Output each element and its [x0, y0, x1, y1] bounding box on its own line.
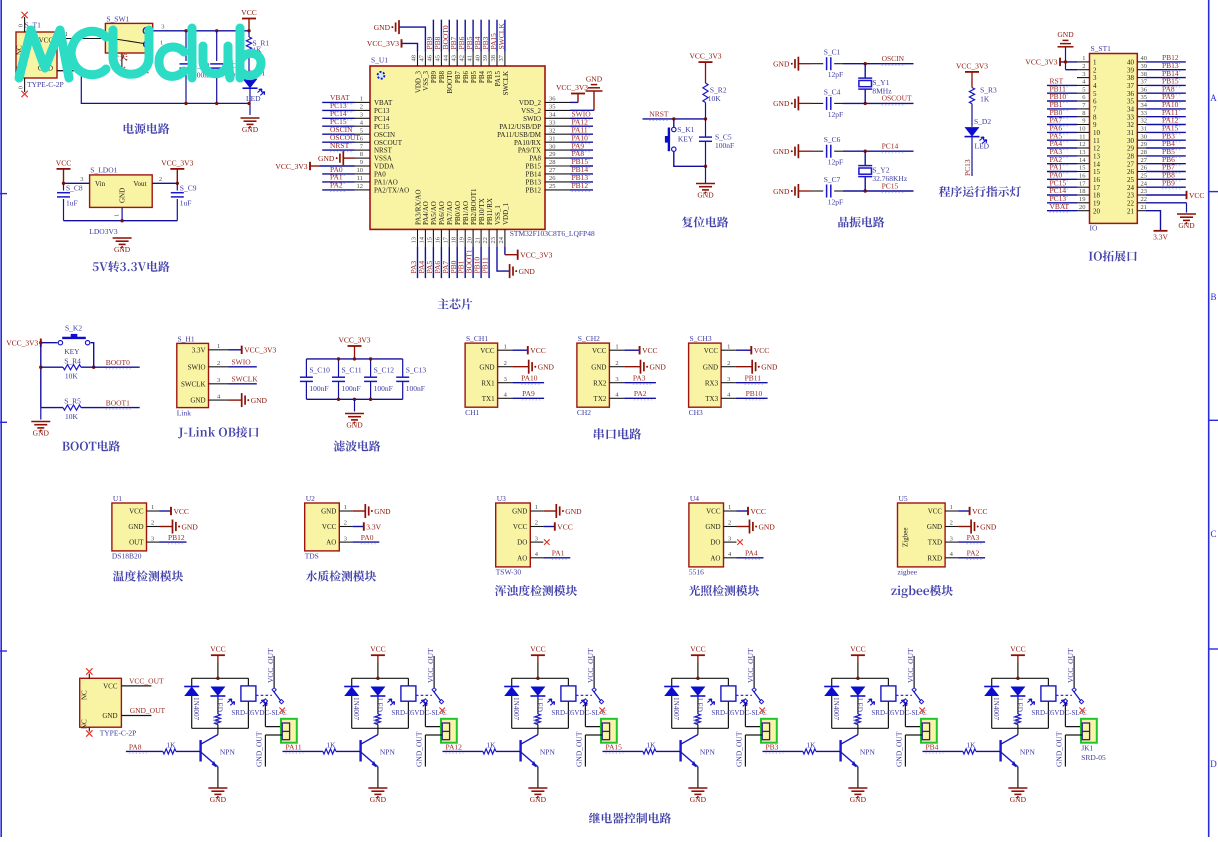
svg-text:3: 3	[1093, 74, 1097, 82]
svg-text:VSS_1: VSS_1	[494, 205, 502, 225]
svg-text:NPN: NPN	[700, 748, 716, 757]
svg-text:PB6: PB6	[462, 71, 470, 84]
svg-text:PA1/AO: PA1/AO	[374, 179, 398, 187]
svg-text:100nF: 100nF	[309, 384, 328, 393]
svg-text:10: 10	[1079, 126, 1086, 133]
svg-text:36: 36	[1141, 86, 1148, 93]
svg-text:GND_OUT: GND_OUT	[895, 731, 904, 767]
svg-text:TX1: TX1	[482, 395, 495, 403]
svg-text:3: 3	[535, 535, 538, 542]
svg-text:31: 31	[1127, 129, 1135, 137]
svg-text:32: 32	[1141, 118, 1148, 125]
svg-text:25: 25	[1141, 173, 1148, 180]
svg-text:VCC_3V3: VCC_3V3	[520, 251, 552, 260]
svg-text:LED: LED	[1015, 698, 1023, 712]
svg-text:PA12: PA12	[446, 743, 463, 752]
svg-text:PA11: PA11	[286, 743, 302, 752]
svg-text:PA2: PA2	[330, 181, 343, 190]
svg-text:37: 37	[498, 54, 505, 61]
svg-text:1: 1	[504, 343, 507, 350]
svg-text:1K: 1K	[692, 716, 700, 726]
svg-text:PB11/RX: PB11/RX	[486, 198, 494, 225]
svg-text:35: 35	[549, 104, 556, 111]
svg-text:48: 48	[411, 55, 418, 62]
svg-text:S_C11: S_C11	[342, 366, 362, 375]
svg-text:VCC: VCC	[322, 523, 337, 531]
svg-text:10: 10	[1093, 129, 1101, 137]
svg-text:2: 2	[727, 360, 730, 367]
svg-text:SWIO: SWIO	[188, 363, 206, 371]
svg-text:23: 23	[1141, 188, 1148, 195]
svg-text:36: 36	[1127, 90, 1135, 98]
svg-text:34: 34	[549, 112, 556, 119]
svg-text:VCC: VCC	[1189, 191, 1204, 200]
svg-text:13: 13	[1093, 153, 1101, 161]
svg-text:32: 32	[1127, 121, 1135, 129]
svg-text:45: 45	[435, 55, 442, 62]
svg-text:VCC: VCC	[530, 645, 545, 654]
svg-text:GND: GND	[927, 523, 942, 531]
svg-text:PB3: PB3	[486, 71, 494, 84]
svg-text:zigbee: zigbee	[898, 567, 918, 576]
svg-text:1K: 1K	[326, 740, 336, 749]
svg-text:PA12/USB/DP: PA12/USB/DP	[499, 123, 541, 131]
svg-text:12: 12	[357, 183, 364, 190]
svg-text:GND: GND	[374, 23, 391, 32]
svg-text:KEY: KEY	[678, 134, 694, 143]
svg-text:S_LDO1: S_LDO1	[90, 166, 117, 175]
svg-text:S_R4: S_R4	[64, 356, 81, 365]
svg-text:VCC: VCC	[174, 507, 189, 516]
svg-text:1K: 1K	[806, 740, 816, 749]
svg-text:GND_OUT: GND_OUT	[255, 731, 264, 767]
svg-text:26: 26	[549, 175, 556, 182]
svg-text:37: 37	[1127, 82, 1135, 90]
svg-text:VCC: VCC	[480, 347, 495, 355]
svg-text:20: 20	[1093, 207, 1101, 215]
svg-text:19: 19	[1093, 199, 1101, 207]
svg-text:21: 21	[1141, 204, 1148, 211]
svg-text:U4: U4	[690, 494, 699, 503]
svg-text:17: 17	[1093, 184, 1101, 192]
svg-text:SRD-05VDC-SL-C: SRD-05VDC-SL-C	[711, 709, 767, 717]
svg-text:100nF: 100nF	[715, 141, 734, 150]
svg-text:5: 5	[360, 127, 363, 134]
svg-text:JK1: JK1	[1081, 744, 1093, 753]
svg-text:1K: 1K	[166, 740, 176, 749]
svg-text:35: 35	[1127, 98, 1135, 106]
svg-text:GND: GND	[1057, 30, 1074, 39]
svg-text:PB13: PB13	[525, 179, 541, 187]
svg-text:30: 30	[1127, 137, 1135, 145]
svg-text:VSS_2: VSS_2	[521, 107, 541, 115]
svg-text:VCC: VCC	[103, 683, 118, 691]
svg-text:Link: Link	[177, 409, 191, 418]
svg-text:1N4007: 1N4007	[352, 697, 360, 721]
svg-text:KEY: KEY	[64, 347, 80, 356]
svg-text:GND: GND	[761, 363, 778, 372]
svg-text:27: 27	[1141, 157, 1148, 164]
svg-text:22: 22	[1127, 199, 1135, 207]
svg-text:9: 9	[360, 159, 363, 166]
svg-text:12pF: 12pF	[828, 70, 843, 79]
svg-text:TYPE-C-2P: TYPE-C-2P	[27, 80, 64, 89]
svg-text:46: 46	[427, 54, 434, 61]
svg-text:27: 27	[549, 167, 556, 174]
svg-text:30: 30	[1141, 133, 1148, 140]
svg-text:RXD: RXD	[927, 554, 942, 562]
svg-text:VCC: VCC	[210, 645, 225, 654]
svg-text:GND: GND	[190, 397, 205, 405]
svg-text:16: 16	[1079, 173, 1086, 180]
svg-text:3.3V: 3.3V	[1153, 233, 1168, 242]
svg-text:37: 37	[1141, 79, 1148, 86]
svg-text:Vout: Vout	[133, 180, 146, 188]
svg-text:PA2: PA2	[967, 549, 980, 558]
svg-text:DS18B20: DS18B20	[112, 551, 142, 560]
svg-text:GND: GND	[980, 522, 997, 531]
svg-text:GND: GND	[128, 523, 143, 531]
svg-text:GND: GND	[773, 147, 790, 156]
svg-text:SRD-05VDC-SL-C: SRD-05VDC-SL-C	[391, 709, 447, 717]
svg-text:GND: GND	[850, 795, 867, 804]
svg-text:VDDA: VDDA	[374, 163, 394, 171]
svg-text:26: 26	[1141, 165, 1148, 172]
svg-text:27: 27	[1127, 160, 1135, 168]
svg-text:PB2/BOOT1: PB2/BOOT1	[470, 188, 478, 225]
svg-text:PC13: PC13	[963, 159, 972, 176]
svg-text:40: 40	[1127, 59, 1135, 67]
svg-text:SWIO: SWIO	[232, 358, 252, 367]
svg-text:S_C13: S_C13	[406, 366, 427, 375]
svg-text:NRST: NRST	[649, 110, 669, 119]
svg-text:1N4007: 1N4007	[512, 697, 520, 721]
svg-text:DO: DO	[517, 539, 527, 547]
svg-text:GND: GND	[586, 75, 603, 84]
svg-text:GND: GND	[370, 795, 387, 804]
svg-text:PB8: PB8	[438, 71, 446, 84]
svg-text:VCC: VCC	[241, 8, 256, 17]
svg-text:B: B	[1210, 292, 1216, 302]
svg-text:VCC: VCC	[754, 346, 769, 355]
svg-text:GND_OUT: GND_OUT	[735, 731, 744, 767]
svg-text:12: 12	[1079, 141, 1086, 148]
svg-text:25: 25	[1127, 176, 1135, 184]
svg-text:TYPE-C-2P: TYPE-C-2P	[100, 729, 137, 738]
svg-text:GND: GND	[119, 188, 127, 203]
svg-text:IO: IO	[1090, 224, 1098, 233]
svg-text:NPN: NPN	[1020, 748, 1036, 757]
svg-text:BOOT0: BOOT0	[106, 358, 130, 367]
svg-text:GND: GND	[321, 508, 336, 516]
svg-text:VCC: VCC	[513, 523, 528, 531]
svg-text:S_ST1: S_ST1	[1091, 44, 1112, 53]
svg-text:GND_OUT: GND_OUT	[130, 706, 166, 715]
svg-text:GND: GND	[703, 363, 718, 371]
svg-text:GND: GND	[697, 190, 714, 199]
svg-text:14: 14	[1079, 157, 1086, 164]
svg-text:SRD-05VDC-SL-C: SRD-05VDC-SL-C	[871, 709, 927, 717]
svg-text:SRD-05VDC-SL-C: SRD-05VDC-SL-C	[1031, 709, 1087, 717]
svg-text:1K: 1K	[212, 716, 220, 726]
svg-text:9: 9	[1093, 121, 1097, 129]
svg-text:OSCIN: OSCIN	[374, 131, 395, 139]
svg-text:14: 14	[1093, 160, 1101, 168]
svg-text:8MHz: 8MHz	[872, 86, 892, 95]
svg-text:GND_OUT: GND_OUT	[575, 731, 584, 767]
svg-text:STM32F103C8T6_LQFP48: STM32F103C8T6_LQFP48	[510, 229, 595, 238]
svg-text:1N4007: 1N4007	[992, 697, 1000, 721]
svg-text:2: 2	[1093, 66, 1097, 74]
svg-text:3: 3	[728, 535, 731, 542]
svg-text:20: 20	[466, 237, 473, 244]
svg-text:S_C8: S_C8	[66, 184, 83, 193]
svg-text:43: 43	[450, 55, 457, 62]
svg-text:10K: 10K	[65, 412, 79, 421]
svg-text:1: 1	[344, 504, 347, 511]
svg-text:SWCLK: SWCLK	[502, 71, 510, 96]
svg-text:VCC_3V3: VCC_3V3	[161, 158, 193, 167]
svg-text:31: 31	[1141, 126, 1148, 133]
svg-text:VCC_3V3: VCC_3V3	[1025, 58, 1057, 67]
svg-text:VDD_1: VDD_1	[502, 202, 510, 225]
svg-text:VCC: VCC	[129, 508, 144, 516]
svg-text:2: 2	[360, 104, 363, 111]
svg-text:OSCOUT: OSCOUT	[374, 139, 403, 147]
svg-text:VCC: VCC	[592, 347, 607, 355]
svg-text:39: 39	[1127, 66, 1135, 74]
svg-text:25: 25	[549, 183, 556, 190]
svg-text:S_C1: S_C1	[824, 48, 841, 57]
svg-text:PB7: PB7	[454, 71, 462, 84]
svg-text:PA2/TX/AO: PA2/TX/AO	[374, 187, 409, 195]
svg-text:PB11: PB11	[481, 257, 490, 274]
svg-text:2: 2	[344, 520, 347, 527]
svg-text:8: 8	[1093, 113, 1097, 121]
svg-text:LED: LED	[975, 142, 990, 151]
svg-text:PA5/AO: PA5/AO	[430, 201, 438, 225]
svg-text:GND: GND	[182, 522, 199, 531]
svg-text:GND: GND	[565, 507, 582, 516]
svg-text:22: 22	[1141, 196, 1148, 203]
svg-text:CH2: CH2	[577, 408, 591, 417]
svg-text:PC13: PC13	[374, 107, 390, 115]
svg-text:BOOT1: BOOT1	[106, 398, 130, 407]
svg-text:2: 2	[1082, 63, 1085, 70]
svg-text:TXD: TXD	[928, 539, 942, 547]
svg-text:3: 3	[217, 377, 220, 384]
svg-text:C: C	[1210, 529, 1216, 539]
svg-text:19: 19	[1079, 196, 1086, 203]
svg-text:VBAT: VBAT	[374, 99, 393, 107]
svg-text:35: 35	[1141, 94, 1148, 101]
svg-text:17: 17	[1079, 180, 1086, 187]
svg-text:U3: U3	[497, 494, 506, 503]
svg-text:GND: GND	[690, 795, 707, 804]
svg-text:1: 1	[360, 96, 363, 103]
svg-text:GND: GND	[251, 396, 268, 405]
svg-text:24: 24	[498, 236, 505, 243]
svg-text:S_C9: S_C9	[180, 184, 197, 193]
svg-text:PB4: PB4	[478, 71, 486, 84]
svg-text:GND: GND	[705, 523, 720, 531]
svg-text:5516: 5516	[689, 567, 704, 576]
svg-text:36: 36	[549, 96, 556, 103]
svg-text:28: 28	[549, 159, 556, 166]
svg-text:VCC: VCC	[557, 522, 572, 531]
svg-text:S_R5: S_R5	[64, 397, 81, 406]
svg-text:LED: LED	[375, 698, 383, 712]
svg-text:VCC: VCC	[850, 645, 865, 654]
svg-text:GND: GND	[346, 420, 363, 429]
svg-text:6: 6	[1093, 98, 1097, 106]
svg-text:21: 21	[1127, 207, 1135, 215]
svg-text:24: 24	[1141, 180, 1148, 187]
svg-text:PA15: PA15	[494, 71, 502, 87]
svg-text:3: 3	[950, 535, 953, 542]
svg-text:VCC: VCC	[1010, 645, 1025, 654]
svg-text:NPN: NPN	[540, 748, 556, 757]
svg-text:1: 1	[114, 214, 121, 217]
svg-text:VDD_2: VDD_2	[519, 99, 542, 107]
svg-text:33: 33	[1127, 113, 1135, 121]
svg-text:TSW-30: TSW-30	[496, 567, 522, 576]
svg-text:1K: 1K	[1012, 716, 1020, 726]
svg-text:PB12: PB12	[525, 187, 541, 195]
svg-text:NC: NC	[81, 719, 89, 729]
svg-text:3: 3	[151, 535, 154, 542]
svg-text:2: 2	[504, 360, 507, 367]
svg-text:44: 44	[443, 54, 450, 61]
svg-text:PA4: PA4	[745, 549, 758, 558]
svg-text:VCC: VCC	[706, 508, 721, 516]
svg-text:22: 22	[482, 237, 489, 244]
svg-text:20: 20	[1079, 204, 1086, 211]
svg-text:1uF: 1uF	[180, 199, 192, 208]
svg-text:PB9: PB9	[1162, 178, 1175, 187]
svg-text:VCC: VCC	[370, 645, 385, 654]
svg-text:2: 2	[151, 520, 154, 527]
svg-text:2: 2	[217, 360, 220, 367]
svg-text:PB10: PB10	[746, 389, 763, 398]
svg-text:VCC_3V3: VCC_3V3	[244, 346, 276, 355]
svg-text:GND_OUT: GND_OUT	[415, 731, 424, 767]
svg-text:VCC_OUT: VCC_OUT	[129, 676, 164, 685]
svg-text:TX3: TX3	[705, 395, 718, 403]
svg-text:NRST: NRST	[330, 141, 350, 150]
svg-text:PA10/RX: PA10/RX	[514, 139, 541, 147]
svg-text:7: 7	[1093, 106, 1097, 114]
svg-text:23: 23	[1127, 192, 1135, 200]
svg-text:PB9: PB9	[430, 71, 438, 84]
svg-text:VCC: VCC	[704, 347, 719, 355]
svg-text:11: 11	[1079, 133, 1085, 140]
svg-text:AO: AO	[326, 539, 336, 547]
svg-text:VCC: VCC	[972, 507, 987, 516]
svg-text:17: 17	[443, 236, 450, 243]
svg-text:AO: AO	[710, 554, 720, 562]
svg-text:RX3: RX3	[705, 379, 719, 387]
svg-text:DO: DO	[710, 539, 720, 547]
svg-text:26: 26	[1127, 168, 1135, 176]
svg-text:PA9/TX: PA9/TX	[518, 147, 541, 155]
svg-text:14: 14	[419, 236, 426, 243]
svg-text:PA0: PA0	[361, 533, 374, 542]
svg-text:100nF: 100nF	[406, 384, 425, 393]
svg-text:VCC: VCC	[751, 507, 766, 516]
svg-text:16: 16	[435, 236, 442, 243]
svg-text:28: 28	[1127, 153, 1135, 161]
svg-text:23: 23	[490, 237, 497, 244]
svg-text:GND: GND	[773, 60, 790, 69]
svg-text:LDO3V3: LDO3V3	[89, 227, 118, 236]
svg-text:1: 1	[1093, 59, 1097, 67]
svg-text:16: 16	[1093, 176, 1101, 184]
svg-text:38: 38	[490, 55, 497, 62]
svg-text:LED: LED	[215, 698, 223, 712]
svg-text:VCC: VCC	[530, 346, 545, 355]
svg-text:PA3: PA3	[967, 533, 980, 542]
svg-text:1N4007: 1N4007	[192, 697, 200, 721]
svg-text:PB4: PB4	[926, 743, 939, 752]
svg-text:29: 29	[549, 151, 556, 158]
svg-text:AO: AO	[517, 554, 527, 562]
svg-text:GND: GND	[512, 508, 527, 516]
svg-text:S_K2: S_K2	[65, 324, 82, 333]
svg-text:VCC_3V3: VCC_3V3	[275, 162, 307, 171]
svg-text:4: 4	[1093, 82, 1097, 90]
svg-text:30: 30	[549, 143, 556, 150]
svg-text:RX2: RX2	[593, 379, 607, 387]
svg-text:GND: GND	[1010, 795, 1027, 804]
svg-text:Zigbee: Zigbee	[902, 528, 910, 547]
svg-text:S_C5: S_C5	[715, 133, 732, 142]
svg-text:1K: 1K	[486, 740, 496, 749]
svg-text:GND: GND	[33, 428, 50, 437]
svg-text:5: 5	[1093, 90, 1097, 98]
svg-text:38: 38	[1127, 74, 1135, 82]
svg-text:3: 3	[80, 176, 83, 183]
svg-text:LED: LED	[855, 698, 863, 712]
svg-text:S_R2: S_R2	[710, 86, 727, 95]
svg-text:U1: U1	[113, 494, 122, 503]
svg-text:PA1: PA1	[552, 549, 565, 558]
svg-text:PA7/AO: PA7/AO	[446, 201, 454, 225]
svg-text:CH3: CH3	[689, 408, 703, 417]
svg-text:TX2: TX2	[594, 395, 607, 403]
svg-text:VCC: VCC	[690, 645, 705, 654]
svg-text:LED: LED	[695, 698, 703, 712]
svg-text:PB12: PB12	[572, 181, 589, 190]
svg-text:PB3: PB3	[766, 743, 779, 752]
svg-text:GND: GND	[210, 795, 227, 804]
svg-text:S_H1: S_H1	[178, 334, 195, 343]
svg-text:PA4/AO: PA4/AO	[422, 201, 430, 225]
svg-text:PB5: PB5	[470, 71, 478, 84]
svg-text:PB14: PB14	[525, 171, 541, 179]
svg-text:PB11: PB11	[745, 373, 762, 382]
svg-text:LED: LED	[246, 94, 261, 103]
svg-text:12: 12	[1093, 145, 1101, 153]
svg-text:100nF: 100nF	[374, 384, 393, 393]
svg-text:RX1: RX1	[481, 379, 495, 387]
svg-text:PA8: PA8	[129, 743, 142, 752]
svg-text:VCC: VCC	[642, 346, 657, 355]
svg-text:18: 18	[1079, 188, 1086, 195]
svg-text:5: 5	[1082, 86, 1085, 93]
svg-text:28: 28	[1141, 149, 1148, 156]
svg-text:8: 8	[1082, 110, 1085, 117]
